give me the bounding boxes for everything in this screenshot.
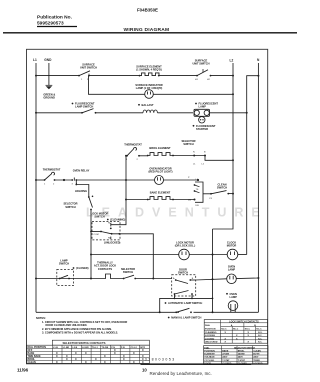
svg-text:N.C.: N.C. xyxy=(258,335,263,337)
svg-text:L1: L1 xyxy=(33,58,37,62)
svg-text:LOCK SWITCH CONTACTS: LOCK SWITCH CONTACTS xyxy=(229,320,259,323)
svg-text:L2-BR: L2-BR xyxy=(82,347,89,349)
resistor bake element xyxy=(147,191,174,201)
svg-text:TIMED: TIMED xyxy=(253,360,260,362)
wire lock switch out xyxy=(112,234,154,279)
switch door switch xyxy=(172,268,196,296)
table selector switch contacts xyxy=(27,340,150,364)
svg-text:AUTOMATIC LAMP SWITCH: AUTOMATIC LAMP SWITCH xyxy=(168,301,202,305)
svg-text:SELECTOR SWITCH: SELECTOR SWITCH xyxy=(234,347,256,349)
svg-text:DIAL: DIAL xyxy=(204,346,210,349)
wire bottom row right xyxy=(194,311,259,313)
lamp oven indicator xyxy=(148,167,172,185)
switch oven thermostat xyxy=(43,168,61,186)
switch oven thermostat hi-limit xyxy=(124,142,142,161)
relay oven relay contact xyxy=(71,169,89,186)
wire row1 to L2 xyxy=(211,75,234,77)
wire bake row xyxy=(126,199,148,201)
switch selector lower blade xyxy=(63,196,93,211)
svg-text:LEADVENTURE: LEADVENTURE xyxy=(86,206,268,220)
svg-text:CLEAN: CLEAN xyxy=(253,350,261,353)
svg-text:(UNLOCKED): (UNLOCKED) xyxy=(104,240,121,244)
bottom rule xyxy=(141,364,252,366)
svg-text:BROIL ELEMENT: BROIL ELEMENT xyxy=(149,146,171,150)
wire L1 bus xyxy=(35,63,37,312)
node selector top terminals xyxy=(193,152,206,166)
switch fluorescent lamp switch xyxy=(72,102,97,114)
wire selector jog to L2 xyxy=(205,156,233,161)
inductor ballast xyxy=(138,103,157,113)
wire fluorescent row left xyxy=(36,112,82,114)
lamp oven lamp xyxy=(226,292,238,313)
svg-text:Publication No.: Publication No. xyxy=(37,14,72,20)
svg-text:C3-L2: C3-L2 xyxy=(131,347,138,349)
svg-text:BALLAST: BALLAST xyxy=(142,103,155,107)
lamp surface indicator xyxy=(135,83,162,98)
motor clock motor xyxy=(227,241,238,260)
wire right vertical xyxy=(212,229,214,312)
svg-text:LOCKING: LOCKING xyxy=(205,335,215,337)
node junction L2 row1 xyxy=(232,75,234,77)
motor lock motor xyxy=(175,241,196,260)
label selector switch xyxy=(181,139,195,146)
svg-text:SWITCH: SWITCH xyxy=(94,215,104,219)
wire row5 a xyxy=(55,179,73,181)
svg-text:GND: GND xyxy=(44,58,52,62)
svg-text:SWITCH: SWITCH xyxy=(178,271,188,275)
svg-text:L1-B: L1-B xyxy=(53,347,58,349)
node junction bottom row right xyxy=(212,311,214,313)
svg-text:F04B350E: F04B350E xyxy=(137,8,158,13)
svg-text:(CLEANING): (CLEANING) xyxy=(110,218,125,222)
thermal door lock contacts xyxy=(94,261,124,279)
svg-text:TS-DB: TS-DB xyxy=(102,347,109,349)
svg-text:UNIT SWITCH: UNIT SWITCH xyxy=(192,62,209,66)
svg-text:BROIL: BROIL xyxy=(238,351,245,353)
svg-text:T-STAT: T-STAT xyxy=(238,359,246,362)
svg-text:L2-B: L2-B xyxy=(72,347,77,349)
wire indicator to L2 xyxy=(153,93,233,95)
svg-text:NC: NC xyxy=(108,238,112,240)
svg-text:DOOR CLOSED AND UNLOCKED.: DOOR CLOSED AND UNLOCKED. xyxy=(46,323,88,327)
svg-text:SWITCH: SWITCH xyxy=(183,142,193,146)
svg-text:T-STAT: T-STAT xyxy=(222,359,230,362)
node junction N lamp row xyxy=(257,277,259,279)
svg-text:SWITCH: SWITCH xyxy=(217,186,227,190)
svg-text:5995290573: 5995290573 xyxy=(37,21,64,27)
wire lamp row xyxy=(36,278,70,280)
svg-text:BOTH: BOTH xyxy=(253,354,260,356)
wire thermostat row xyxy=(36,179,45,181)
svg-text:BAKE: BAKE xyxy=(222,350,229,353)
svg-text:CLEAN: CLEAN xyxy=(28,361,37,364)
svg-text:N.C.: N.C. xyxy=(258,342,263,344)
lock motor switch assembly xyxy=(90,212,126,245)
svg-text:UNLOCKED: UNLOCKED xyxy=(205,342,218,344)
wire motor row to neutral xyxy=(238,254,247,256)
svg-text:LAMP: LAMP xyxy=(230,295,238,299)
wire center riser xyxy=(125,156,127,222)
wire row3 to neutral drop xyxy=(210,112,247,114)
svg-text:LOCKED: LOCKED xyxy=(205,338,215,340)
svg-text:N.O.: N.O. xyxy=(258,332,263,334)
node junction lock out xyxy=(118,233,120,235)
wire holding relay branch xyxy=(75,180,89,197)
svg-text:WIRING DIAGRAM: WIRING DIAGRAM xyxy=(124,27,170,33)
node junction riser row5 xyxy=(125,179,127,181)
label automatic lamp switch xyxy=(165,301,203,305)
switch surface unit switch left xyxy=(78,63,97,82)
node junction vertical lamp row xyxy=(212,278,214,280)
svg-text:(OR LOCK SOL.): (OR LOCK SOL.) xyxy=(175,244,196,248)
wire lamp row mid xyxy=(135,278,172,280)
svg-text:OVEN RELAY: OVEN RELAY xyxy=(73,169,90,173)
svg-text:DB: DB xyxy=(188,200,192,202)
svg-text:SWITCH: SWITCH xyxy=(123,270,133,274)
wire neutral drop xyxy=(247,76,259,255)
lamp starter xyxy=(193,117,216,131)
svg-text:DIAL: DIAL xyxy=(205,324,211,327)
node junction L1 lamp row xyxy=(35,278,37,280)
lamp rear oven lamp xyxy=(227,265,237,284)
notes xyxy=(36,316,127,334)
svg-text:GREEN &: GREEN & xyxy=(43,92,55,96)
svg-text:318003053: 318003053 xyxy=(145,358,176,362)
wire GND lead xyxy=(48,63,50,86)
svg-text:SWITCH: SWITCH xyxy=(59,262,69,266)
svg-text:11/96: 11/96 xyxy=(17,367,29,372)
node junction L2 row2 xyxy=(232,93,234,95)
wire motor row mid xyxy=(189,254,227,256)
wire L2 bus xyxy=(213,63,234,229)
svg-text:STARTER: STARTER xyxy=(196,127,208,131)
node junction drop row3 xyxy=(246,112,248,114)
svg-text:LAMP SWITCH: LAMP SWITCH xyxy=(75,105,93,109)
wire lamp row right xyxy=(190,279,195,281)
svg-text:3. COMPONENTS WITH ⚹ DO NOT A: 3. COMPONENTS WITH ⚹ DO NOT APPEAR ON AL… xyxy=(42,330,118,334)
node junction feed motor row xyxy=(90,254,92,256)
svg-text:SWITCH: SWITCH xyxy=(65,205,75,209)
svg-text:TS-L1: TS-L1 xyxy=(92,347,99,349)
svg-text:LAMP: LAMP xyxy=(228,268,236,272)
svg-text:2. 90°C MINIMUM APPLIANCE CON: 2. 90°C MINIMUM APPLIANCE CONNECTOR P/N … xyxy=(42,327,112,331)
wire row3 to lamp xyxy=(158,112,194,114)
svg-text:SELECTOR SWITCH CONTACTS: SELECTOR SWITCH CONTACTS xyxy=(62,341,105,345)
svg-text:LAMP: LAMP xyxy=(199,105,207,109)
svg-text:CYCLING: CYCLING xyxy=(204,360,214,362)
svg-text:(CLOSED): (CLOSED) xyxy=(76,266,89,270)
wire bottom row xyxy=(36,311,179,313)
svg-text:UNIT SWITCH: UNIT SWITCH xyxy=(80,66,97,70)
svg-text:MOTOR: MOTOR xyxy=(227,244,237,248)
wire N bus xyxy=(257,63,259,312)
wire row1 right xyxy=(159,75,197,77)
wire broil row xyxy=(139,155,148,157)
svg-text:MANUAL LAMP SWITCH: MANUAL LAMP SWITCH xyxy=(171,316,201,320)
switch lamp switch xyxy=(57,258,105,285)
table oven selector data xyxy=(204,346,268,365)
node junction L1 row3 xyxy=(35,112,37,114)
svg-text:GROUND: GROUND xyxy=(43,96,55,100)
resistor surface element xyxy=(136,65,162,77)
node junction L2 selector xyxy=(232,159,234,161)
svg-text:NO: NO xyxy=(108,223,112,225)
svg-text:(1 SHOWN, 4 REQ'D): (1 SHOWN, 4 REQ'D) xyxy=(136,68,162,72)
svg-text:DB: DB xyxy=(196,205,200,207)
table lamp switch contacts xyxy=(204,320,267,344)
wire row1 mid xyxy=(89,75,140,77)
svg-text:POSITION: POSITION xyxy=(204,351,215,353)
wire lamp row to N xyxy=(236,277,258,280)
svg-text:THERMOSTAT: THERMOSTAT xyxy=(43,168,61,172)
svg-text:NOTES:: NOTES: xyxy=(36,316,46,320)
svg-text:CONTACTS: CONTACTS xyxy=(98,267,112,271)
wire row3 mid xyxy=(96,112,144,114)
wire bake to selector xyxy=(173,199,195,201)
wire indicator lamp drop xyxy=(89,76,145,95)
header publication no. xyxy=(37,14,77,26)
selector switch bracket xyxy=(188,177,203,207)
svg-text:240V: 240V xyxy=(222,356,228,359)
wire surface element row xyxy=(36,75,79,77)
node junction feed lamp row xyxy=(90,278,92,280)
node junction row5 xyxy=(63,179,65,181)
svg-text:ELEMENT: ELEMENT xyxy=(204,354,215,356)
wire row5 c xyxy=(164,179,199,181)
svg-text:CLEANING: CLEANING xyxy=(205,331,217,334)
svg-text:L2: L2 xyxy=(230,59,234,63)
svg-text:BAKE ELEMENT: BAKE ELEMENT xyxy=(150,191,171,195)
wire row5 b xyxy=(76,179,154,181)
svg-text:10: 10 xyxy=(142,368,147,373)
switch selector lamp blade xyxy=(121,267,136,280)
ground xyxy=(43,85,55,99)
svg-text:THERMOSTAT: THERMOSTAT xyxy=(124,142,142,146)
svg-text:P-B: P-B xyxy=(121,347,125,349)
node junction motor row xyxy=(212,254,214,256)
node junction L1 row1 xyxy=(35,75,37,77)
wire door switch bypass rail xyxy=(159,294,214,313)
node junction lock drop lamp row xyxy=(152,278,154,280)
switch manual lamp switch xyxy=(168,308,202,319)
wire selector feed down xyxy=(90,210,92,279)
header rule xyxy=(3,32,297,34)
node junction riser bake xyxy=(125,199,127,201)
svg-text:1. CIRCUIT SHOWN WITH ALL CON: 1. CIRCUIT SHOWN WITH ALL CONTROLS SET T… xyxy=(42,320,127,324)
svg-text:(RED PILOT LIGHT): (RED PILOT LIGHT) xyxy=(148,170,172,174)
svg-text:COM: COM xyxy=(94,234,99,236)
svg-text:Rendered by LeadVenture, Inc.: Rendered by LeadVenture, Inc. xyxy=(150,371,212,376)
switch surface unit switch right xyxy=(192,59,211,82)
fluorescent lamp xyxy=(194,102,218,117)
node junction N stub xyxy=(257,75,259,77)
svg-text:2750W: 2750W xyxy=(222,354,230,356)
node junction L1 row5 xyxy=(35,179,37,181)
switch clean switch xyxy=(203,183,234,200)
wire broil to selector xyxy=(173,155,205,157)
svg-text:N.C.: N.C. xyxy=(258,338,263,340)
resistor broil element xyxy=(147,146,174,156)
wire motor row xyxy=(91,254,179,256)
svg-text:LOCKED: LOCKED xyxy=(253,363,263,365)
node junction riser top xyxy=(125,155,127,157)
svg-text:240V: 240V xyxy=(253,356,259,359)
svg-text:240V: 240V xyxy=(238,356,244,359)
svg-text:L1-BR: L1-BR xyxy=(63,347,70,349)
svg-text:3400W: 3400W xyxy=(238,353,246,356)
svg-text:HOLDING: HOLDING xyxy=(75,189,87,193)
diagram border xyxy=(27,49,268,364)
svg-text:VOLTAGE: VOLTAGE xyxy=(204,356,215,359)
